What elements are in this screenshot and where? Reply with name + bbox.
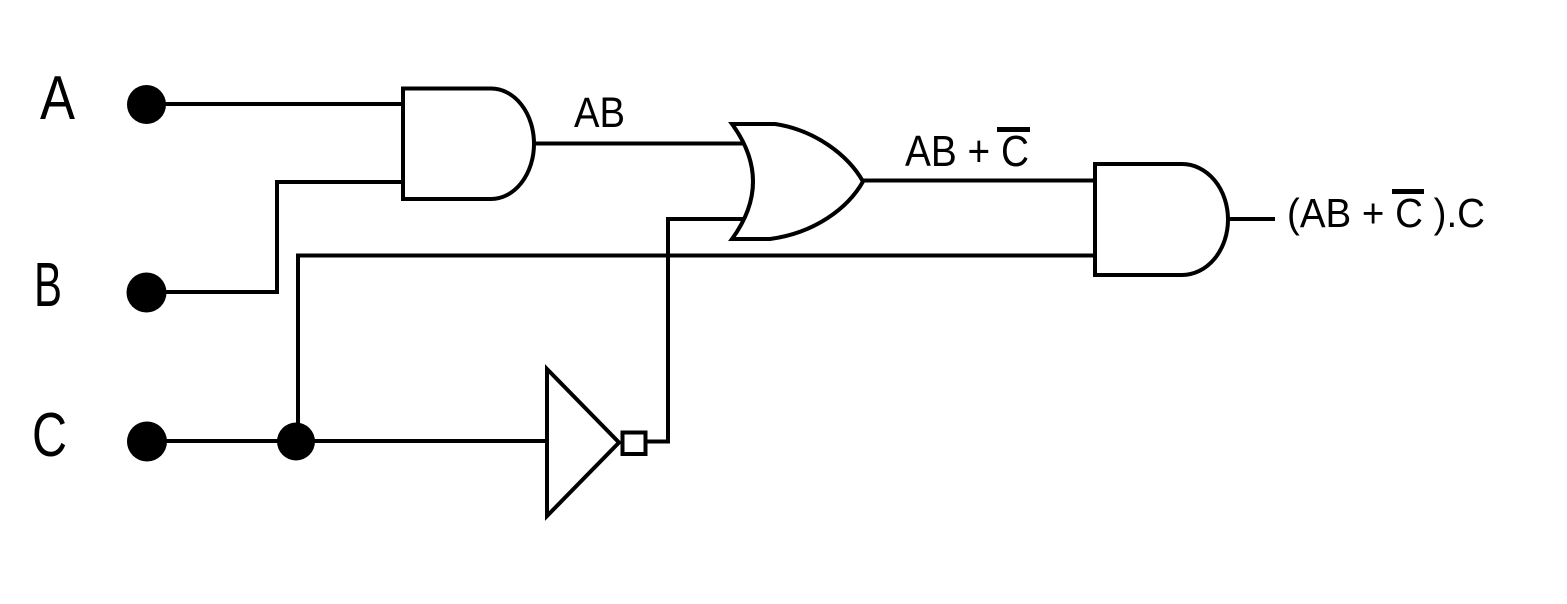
svg-text:C: C [32,401,67,470]
svg-text:A: A [40,64,76,133]
svg-text:AB + C: AB + C [905,127,1029,176]
svg-text:B: B [34,251,62,320]
svg-text:(AB + C ).C: (AB + C ).C [1287,190,1485,236]
svg-text:AB: AB [574,89,625,137]
